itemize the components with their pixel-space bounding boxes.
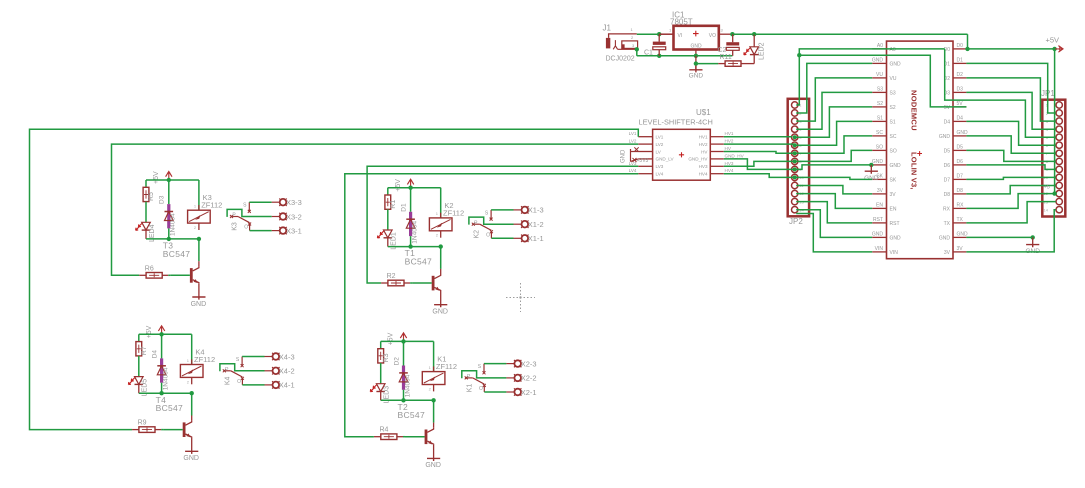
- svg-text:HV4: HV4: [725, 168, 734, 173]
- wire NodeMCU-L12 to JP2-11: [796, 194, 872, 209]
- svg-text:RX: RX: [943, 206, 951, 212]
- svg-text:BC547: BC547: [398, 410, 426, 420]
- svg-text:SO: SO: [876, 145, 883, 151]
- svg-text:R4: R4: [380, 427, 389, 434]
- junction diode bottom: [167, 237, 171, 241]
- junction top: [167, 178, 171, 182]
- relay coil K2 ZF112: [429, 201, 464, 238]
- svg-text:S3: S3: [890, 90, 896, 96]
- svg-text:2: 2: [436, 233, 439, 238]
- LED LED3: [370, 384, 390, 404]
- svg-text:D3: D3: [957, 87, 964, 93]
- svg-text:R2: R2: [387, 273, 396, 280]
- wire base: [403, 436, 405, 438]
- svg-text:GND: GND: [191, 301, 207, 308]
- svg-text:+5V: +5V: [153, 171, 160, 184]
- junction VU net: [797, 53, 801, 57]
- connector JP2: [788, 99, 809, 226]
- svg-text:X1-3: X1-3: [528, 206, 544, 215]
- svg-text:LV1: LV1: [656, 135, 664, 140]
- svg-text:SC: SC: [890, 134, 897, 140]
- pin NodeMCU right TX: [944, 217, 967, 227]
- svg-text:VU: VU: [890, 76, 897, 82]
- svg-text:D7: D7: [957, 174, 964, 180]
- wire base into transistor: [163, 429, 183, 431]
- wire NodeMCU-L1 to JP2-1: [796, 49, 945, 105]
- junction diode bottom: [408, 244, 412, 248]
- wire NodeMCU-L2 to JP2-2: [796, 63, 872, 113]
- wire LED to rail: [387, 238, 389, 247]
- resistor R11: [718, 47, 755, 66]
- wire +5V rail to node: [754, 33, 967, 35]
- resistor R7: [136, 342, 148, 356]
- wire net IN1 bus: [112, 144, 639, 275]
- svg-text:A0: A0: [890, 47, 896, 53]
- wire J1 tip to IC1 VI: [637, 33, 659, 35]
- svg-text:LV: LV: [656, 149, 662, 154]
- svg-text:J1: J1: [603, 24, 612, 33]
- pin NodeMCU left GND: [872, 232, 901, 242]
- pin NodeMCU left A0: [872, 43, 896, 53]
- junction diode bottom: [159, 391, 163, 395]
- wire base: [161, 429, 163, 431]
- pin NodeMCU left SK: [872, 174, 897, 184]
- wire contact NC: [484, 391, 506, 393]
- wire contact NC: [491, 237, 513, 239]
- wire contact NC: [250, 230, 272, 232]
- svg-text:RST: RST: [890, 221, 900, 227]
- svg-text:3: 3: [721, 28, 724, 33]
- pin NodeMCU right GND: [939, 232, 968, 242]
- wire U$1 HV to JP2-7: [724, 152, 793, 154]
- svg-text:S2: S2: [877, 101, 883, 107]
- svg-text:S: S: [478, 364, 482, 370]
- wire contact NO: [249, 201, 271, 203]
- wire U$1 GND_HV to JP2-9: [724, 159, 793, 170]
- svg-text:LV1: LV1: [629, 131, 637, 136]
- svg-text:D4: D4: [151, 350, 158, 359]
- wire NodeMCU-R2 to JP1-2: [966, 63, 1055, 113]
- wire diode top: [403, 341, 405, 365]
- pin NodeMCU right D2: [944, 72, 967, 82]
- pin NodeMCU right 5V: [944, 101, 967, 111]
- wire +5V top to arrow: [966, 48, 1054, 50]
- svg-text:ZF112: ZF112: [201, 201, 222, 210]
- wire diode bottom: [168, 228, 170, 239]
- pin NodeMCU left GND: [872, 159, 901, 169]
- svg-text:ZF112: ZF112: [194, 355, 215, 364]
- wire left branch mid: [380, 363, 382, 384]
- wire U$1 HV2 to JP2-6: [724, 144, 793, 145]
- capacitor C1: [644, 34, 666, 56]
- wire J1 sleeve down: [636, 49, 638, 56]
- wire left branch upper: [138, 334, 140, 341]
- wire U$1 HV3 to JP2-8: [724, 161, 793, 166]
- svg-text:O: O: [237, 379, 241, 385]
- wire NodeMCU-L1 through chip to JP1-5: [945, 49, 1056, 137]
- svg-text:R11: R11: [720, 54, 732, 61]
- svg-text:D2: D2: [957, 72, 964, 78]
- junction JP2 pad: [793, 159, 797, 163]
- wire rail to IC1: [659, 33, 673, 35]
- svg-text:TX: TX: [944, 221, 951, 227]
- wire +5V rail right: [732, 33, 754, 35]
- wire top rail: [381, 340, 434, 342]
- svg-text:LV3: LV3: [656, 164, 664, 169]
- connector pad X1-3: [514, 206, 544, 215]
- pin NodeMCU right D1: [944, 58, 967, 68]
- wire NodeMCU-R4 to JP1-4: [966, 92, 1055, 129]
- svg-text:X3-1: X3-1: [286, 226, 302, 235]
- wire base: [168, 274, 170, 276]
- svg-text:1: 1: [187, 358, 190, 363]
- svg-text:S: S: [236, 357, 240, 363]
- ground NodeMCU left GND: [864, 165, 879, 182]
- svg-text:LEVEL-SHIFTER-4CH: LEVEL-SHIFTER-4CH: [639, 117, 713, 126]
- connector pad X2-1: [506, 388, 536, 397]
- junction NodeMCU GND right: [1031, 235, 1035, 239]
- svg-text:D5: D5: [944, 148, 951, 154]
- pin U$1 right HV: [701, 146, 732, 154]
- wire contact NO: [242, 356, 264, 358]
- voltage regulator IC1 7805T: [669, 11, 724, 50]
- wire emitter down: [433, 445, 435, 459]
- svg-text:14: 14: [1044, 207, 1049, 212]
- svg-text:GND: GND: [872, 58, 884, 64]
- svg-text:R9: R9: [138, 420, 147, 427]
- ground emitter GND: [432, 305, 448, 316]
- svg-text:R1: R1: [390, 200, 397, 209]
- diode D1 1N4004: [400, 203, 418, 244]
- svg-text:X2-1: X2-1: [521, 388, 537, 397]
- junction J1 sleeve: [635, 47, 639, 51]
- junction C2 top: [730, 32, 734, 36]
- junction C1 top: [657, 32, 661, 36]
- svg-text:D1: D1: [957, 58, 964, 64]
- wire relay top: [191, 334, 193, 364]
- LED LED5: [128, 377, 148, 397]
- wire IC1 VO out: [719, 33, 733, 35]
- wire relay to collector: [433, 400, 435, 422]
- wire relay to collector: [198, 239, 200, 261]
- svg-text:GND: GND: [872, 159, 884, 165]
- svg-text:S1: S1: [877, 116, 883, 122]
- pin NodeMCU right D7: [944, 174, 967, 184]
- svg-text:HV4: HV4: [699, 172, 708, 177]
- svg-text:U$1: U$1: [696, 108, 711, 117]
- wire left branch mid: [138, 356, 140, 377]
- svg-text:3: 3: [632, 43, 635, 48]
- svg-text:HV3: HV3: [725, 161, 734, 166]
- wire base: [410, 282, 412, 284]
- svg-text:RX: RX: [957, 203, 965, 209]
- svg-text:HV1: HV1: [725, 131, 734, 136]
- svg-text:P: P: [474, 220, 478, 226]
- svg-text:NODEMCU: NODEMCU: [910, 90, 919, 131]
- pin NodeMCU left RST: [872, 217, 899, 227]
- svg-text:BC547: BC547: [405, 257, 433, 267]
- pin NodeMCU right RX: [943, 203, 966, 213]
- LED LED1: [377, 230, 397, 250]
- resistor R9: [132, 420, 161, 433]
- wire relay to collector: [440, 247, 442, 269]
- pin NodeMCU left VU: [872, 72, 897, 82]
- junction top: [408, 186, 412, 190]
- connector JP1: [1041, 89, 1065, 217]
- svg-text:2: 2: [187, 379, 190, 384]
- wire diode bottom: [161, 383, 163, 394]
- svg-text:D2: D2: [393, 357, 400, 366]
- junction relay bottom: [439, 244, 443, 248]
- wire relay top: [198, 180, 200, 210]
- wire NodeMCU-L7 to JP2-7: [796, 136, 872, 153]
- svg-text:LED2: LED2: [759, 42, 766, 60]
- connector J1 DC jack: [603, 24, 638, 63]
- pin NodeMCU right D3: [944, 87, 967, 97]
- pin NodeMCU right 3V: [944, 246, 967, 256]
- pin U$1 right HV4: [699, 168, 734, 176]
- relay contact K4 switch: [220, 357, 265, 386]
- svg-text:VIN: VIN: [875, 246, 884, 252]
- junction C1 bottom: [657, 54, 661, 58]
- pin U$1 right HV3: [699, 161, 734, 169]
- wire NodeMCU-R13 to JP1-13: [966, 202, 1055, 223]
- supply +5V arrow K4 block: [146, 325, 165, 338]
- ground power GND: [689, 66, 702, 73]
- svg-text:S2: S2: [890, 105, 896, 111]
- svg-text:1: 1: [194, 204, 197, 209]
- wire NodeMCU-L5 to JP2-5: [796, 107, 872, 137]
- svg-text:P: P: [232, 213, 236, 219]
- resistor R2: [381, 273, 410, 286]
- junction JP2 pad: [793, 143, 797, 147]
- svg-text:R5: R5: [148, 192, 155, 201]
- wire emitter down: [440, 291, 442, 305]
- wire net VU crossing: [799, 55, 966, 107]
- resistor R3: [378, 349, 390, 363]
- wire net IN4 bus: [345, 174, 639, 437]
- origin crosshair mark: [506, 283, 535, 312]
- svg-text:S3: S3: [877, 87, 883, 93]
- svg-text:2: 2: [194, 225, 197, 230]
- svg-text:K3: K3: [232, 222, 239, 231]
- LED LED2: [744, 34, 766, 63]
- connector pad X1-1: [514, 234, 544, 243]
- transistor T4 BC547: [156, 395, 192, 438]
- diode D3 1N4004: [159, 195, 177, 236]
- wire relay top: [440, 188, 442, 218]
- svg-text:1: 1: [631, 27, 634, 32]
- svg-text:X1-2: X1-2: [528, 220, 544, 229]
- wire top rail: [146, 179, 199, 181]
- svg-text:TX: TX: [957, 217, 964, 223]
- junction relay bottom: [431, 398, 435, 402]
- connector pad X3-1: [272, 226, 302, 235]
- svg-text:SO: SO: [890, 148, 897, 154]
- svg-text:1: 1: [669, 28, 672, 33]
- pin NodeMCU left S1: [872, 116, 896, 126]
- wire NodeMCU-L13 to JP2-12: [796, 202, 872, 223]
- svg-text:GND: GND: [890, 163, 902, 169]
- pin NodeMCU right D6: [944, 159, 967, 169]
- svg-text:+3V3: +3V3: [637, 158, 649, 164]
- svg-text:3V: 3V: [944, 250, 951, 256]
- wire base into transistor: [412, 282, 432, 284]
- svg-text:GND: GND: [621, 149, 627, 163]
- wire relay to collector: [191, 393, 193, 415]
- svg-text:EN: EN: [890, 206, 897, 212]
- connector pad X4-3: [265, 352, 295, 361]
- wire bottom rail: [388, 246, 441, 248]
- resistor R5: [143, 187, 155, 201]
- ground emitter GND: [425, 458, 441, 469]
- svg-text:LV4: LV4: [629, 168, 637, 173]
- svg-text:VO: VO: [709, 33, 716, 39]
- wire NodeMCU-R15 to JP1-14: [966, 210, 1055, 252]
- connector pad X1-2: [514, 220, 544, 229]
- svg-text:D8: D8: [944, 192, 951, 198]
- relay contact K3 switch: [227, 202, 272, 231]
- pin NodeMCU right D8: [944, 188, 967, 198]
- svg-text:1N4004: 1N4004: [411, 221, 418, 244]
- ground emitter GND: [183, 451, 199, 462]
- pin NodeMCU left SC: [872, 130, 897, 140]
- svg-text:S: S: [485, 210, 489, 216]
- svg-text:GND: GND: [183, 455, 199, 462]
- svg-text:3V: 3V: [877, 188, 884, 194]
- svg-text:O: O: [486, 232, 490, 238]
- svg-text:3V: 3V: [890, 192, 897, 198]
- svg-text:LV2: LV2: [629, 139, 637, 144]
- relay contact K1 switch: [462, 364, 507, 393]
- junction top: [159, 332, 163, 336]
- svg-text:D4: D4: [944, 119, 951, 125]
- pin NodeMCU right D5: [944, 145, 967, 155]
- pin NodeMCU left EN: [872, 203, 897, 213]
- relay contact K2 switch: [469, 210, 514, 239]
- svg-text:1N4004: 1N4004: [162, 367, 169, 390]
- svg-text:X3-3: X3-3: [286, 198, 302, 207]
- wire left branch mid: [387, 209, 389, 230]
- supply +5V arrow K1 block: [388, 332, 407, 345]
- pin NodeMCU left 3V: [872, 188, 896, 198]
- svg-text:R7: R7: [141, 346, 148, 355]
- wire base into transistor: [170, 274, 190, 276]
- pin NodeMCU left VIN: [872, 246, 898, 256]
- svg-text:GND: GND: [432, 309, 448, 316]
- svg-text:P: P: [225, 367, 229, 373]
- wire bottom rail: [146, 238, 199, 240]
- svg-text:O: O: [244, 225, 248, 231]
- svg-text:+5V: +5V: [388, 332, 395, 345]
- connector pad X4-1: [265, 381, 295, 390]
- svg-text:X2-2: X2-2: [521, 374, 537, 383]
- svg-text:5V: 5V: [944, 105, 951, 111]
- wire IC1 GND pin: [695, 50, 697, 56]
- pin U$1 left LV3: [629, 161, 664, 169]
- svg-text:GND_HV: GND_HV: [688, 157, 708, 162]
- resistor R1: [385, 195, 397, 209]
- junction +5V arrow: [1052, 47, 1056, 51]
- wire net IN3 bus: [30, 129, 639, 429]
- svg-text:HV1: HV1: [699, 135, 708, 140]
- svg-text:HV3: HV3: [699, 164, 708, 169]
- svg-text:R6: R6: [145, 265, 154, 272]
- svg-text:K2: K2: [473, 230, 480, 239]
- wire emitter down: [198, 283, 200, 297]
- LED LED4: [136, 222, 156, 242]
- wire NodeMCU-L6 to JP2-6: [796, 121, 872, 145]
- junction gnd R11 rail: [694, 61, 698, 65]
- svg-text:GND: GND: [689, 73, 704, 80]
- wire bottom rail: [381, 399, 434, 401]
- wire +5V down to JP1-12: [1055, 49, 1056, 194]
- transistor T3 BC547: [163, 241, 199, 284]
- wire contact NO: [484, 363, 506, 365]
- svg-text:+5V: +5V: [395, 179, 402, 192]
- ground NodeMCU right GND: [1025, 237, 1040, 255]
- wire left branch upper: [145, 180, 147, 187]
- op-amp U$1 LEVEL-SHIFTER-4CH box: [639, 108, 713, 180]
- pin NodeMCU left GND: [872, 58, 901, 68]
- svg-text:VU: VU: [876, 72, 883, 78]
- svg-text:D3: D3: [159, 195, 166, 204]
- connector pad X4-2: [265, 367, 295, 376]
- svg-text:X4-2: X4-2: [279, 367, 295, 376]
- wire ground rail: [637, 55, 733, 57]
- svg-text:X3-2: X3-2: [286, 212, 302, 221]
- svg-text:D5: D5: [957, 145, 964, 151]
- svg-text:LV2: LV2: [656, 142, 664, 147]
- wire top rail: [388, 187, 441, 189]
- wire NodeMCU-R14 GND: [966, 236, 1032, 238]
- wire diode top: [161, 334, 163, 358]
- wire U$1 HV1 to JP2-5: [724, 136, 792, 139]
- pin NodeMCU left S3: [872, 87, 896, 97]
- svg-text:D0: D0: [957, 43, 964, 49]
- svg-text:BC547: BC547: [156, 403, 184, 413]
- svg-text:D8: D8: [957, 188, 964, 194]
- pin NodeMCU right D4: [944, 116, 967, 126]
- svg-text:D6: D6: [944, 163, 951, 169]
- capacitor C2: [726, 34, 739, 56]
- wire gnd to R11: [696, 63, 718, 65]
- wire NodeMCU-R9 to JP1-9: [966, 165, 1055, 170]
- svg-text:ZF112: ZF112: [443, 208, 464, 217]
- wire emitter down: [191, 438, 193, 452]
- svg-text:D1: D1: [400, 203, 407, 212]
- wire left branch mid: [145, 202, 147, 223]
- svg-text:X2-3: X2-3: [521, 359, 537, 368]
- pin U$1 left LV: [638, 149, 661, 154]
- junction +5V row1: [965, 47, 969, 51]
- wire NodeMCU-R3 to JP1-3: [966, 78, 1055, 121]
- svg-text:X4-3: X4-3: [279, 352, 295, 361]
- wire U$1 HV4 to JP2-10: [724, 174, 793, 178]
- relay coil K4 ZF112: [180, 348, 215, 385]
- svg-text:ZF112: ZF112: [436, 362, 457, 371]
- svg-text:3V: 3V: [957, 246, 964, 252]
- junction relay bottom: [190, 391, 194, 395]
- wire relay top: [433, 341, 435, 371]
- junction IC1 gnd rail: [694, 54, 698, 58]
- svg-text:EN: EN: [876, 203, 883, 209]
- wire contact NC: [242, 384, 264, 386]
- wire NodeMCU-R8 to JP1-8: [966, 150, 1055, 161]
- connector pad X3-2: [272, 212, 302, 221]
- wire NodeMCU-L4 to JP2-4: [796, 92, 872, 129]
- wire NodeMCU-R6 to JP1-6: [966, 121, 1055, 145]
